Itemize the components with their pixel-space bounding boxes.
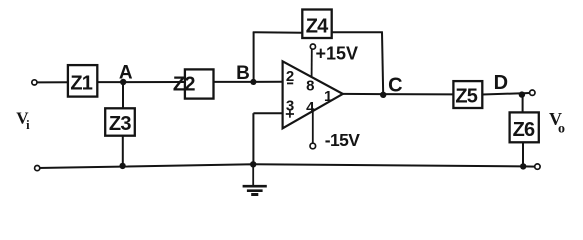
impedance Z3 [105,108,135,135]
wire Z6 down to bottom rail [522,142,524,166]
op-amp U1 [283,61,343,128]
junction below Z3 [119,163,125,169]
positive supply stem [311,49,313,77]
bottom-left terminal [35,166,40,171]
negative supply terminal [310,143,316,149]
wire Z2 to op-amp pin 2 through node B [214,81,283,83]
wire Z3 down to bottom rail [122,136,124,167]
wire input terminal to Z1 [37,81,68,83]
node D [519,91,525,97]
wire pin 3 down to ground rail [252,113,254,164]
node B [250,79,256,85]
svg-text:C: C [388,75,402,97]
bottom-right terminal [535,164,540,169]
non-inverting input wire to pin 3 [253,112,282,114]
svg-text:Vi: Vi [16,109,30,132]
wire Z5 to output terminal through node D [482,93,530,95]
svg-text:2: 2 [286,68,294,85]
ground [243,164,267,194]
ground junction [250,161,256,167]
feedback wire left segment to Z4 [253,31,303,33]
riser down to node C [382,32,383,94]
svg-text:Z2: Z2 [173,73,195,95]
non-inverting input plus sign [286,110,294,117]
impedance Z1 [68,65,97,97]
positive supply terminal [310,44,315,49]
input terminal [32,80,37,85]
wire node A down to Z3 [122,82,124,109]
junction below Z6 [520,163,526,169]
svg-text:A: A [119,62,133,83]
wire Z1 to Z2 through node A [97,81,185,83]
svg-text:4: 4 [306,99,315,116]
riser node B up to feedback rail [253,32,255,82]
svg-text:D: D [494,72,508,94]
svg-text:Vo: Vo [549,109,565,136]
node C [380,92,386,98]
output wire op-amp to Z5 [343,93,454,96]
impedance Z6 [510,112,539,142]
svg-text:Z4: Z4 [306,16,329,38]
svg-text:Z5: Z5 [455,85,477,107]
impedance Z2 [173,69,214,98]
negative supply stem [312,108,314,143]
output terminal [530,90,535,95]
inverting input minus sign [287,82,293,84]
svg-text:+15V: +15V [316,44,359,64]
svg-text:Z3: Z3 [109,113,131,135]
feedback wire right segment Z4 to riser [332,31,383,33]
node A [120,79,126,85]
svg-text:-15V: -15V [325,130,360,150]
svg-text:B: B [236,63,250,84]
impedance Z5 [453,81,482,108]
svg-text:8: 8 [306,77,314,94]
impedance Z4 [302,10,331,39]
svg-text:1: 1 [324,88,332,105]
svg-text:Z6: Z6 [513,119,535,141]
bottom rail [38,164,535,168]
wire node D down to Z6 [522,95,524,113]
svg-text:Z1: Z1 [70,72,92,94]
